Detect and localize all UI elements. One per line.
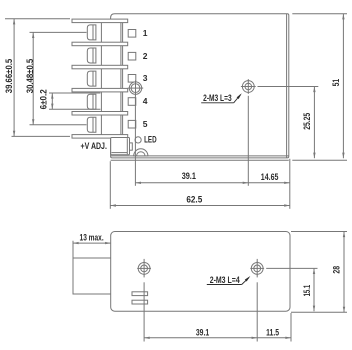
svg-text:2-M3 L=3: 2-M3 L=3: [203, 93, 232, 103]
svg-text:30.48±0.5: 30.48±0.5: [25, 58, 36, 93]
svg-text:25.25: 25.25: [302, 112, 313, 130]
svg-text:11.5: 11.5: [266, 328, 279, 339]
svg-text:3: 3: [143, 73, 148, 83]
svg-text:6±0.2: 6±0.2: [39, 89, 50, 109]
svg-text:4: 4: [143, 96, 148, 106]
svg-text:14.65: 14.65: [261, 172, 279, 183]
svg-text:39.1: 39.1: [182, 171, 197, 182]
svg-text:5: 5: [143, 119, 148, 129]
svg-text:2: 2: [143, 51, 148, 61]
svg-text:13 max.: 13 max.: [80, 233, 104, 244]
svg-text:+V ADJ.: +V ADJ.: [81, 141, 107, 151]
svg-text:62.5: 62.5: [186, 194, 203, 205]
svg-text:28: 28: [332, 266, 343, 274]
svg-text:51: 51: [331, 78, 342, 86]
svg-text:2-M3 L=4: 2-M3 L=4: [210, 275, 240, 285]
svg-text:39.1: 39.1: [196, 327, 210, 338]
svg-text:LED: LED: [144, 135, 157, 145]
svg-text:39.66±0.5: 39.66±0.5: [4, 58, 15, 93]
svg-text:1: 1: [143, 28, 148, 38]
svg-text:15.1: 15.1: [302, 284, 313, 296]
